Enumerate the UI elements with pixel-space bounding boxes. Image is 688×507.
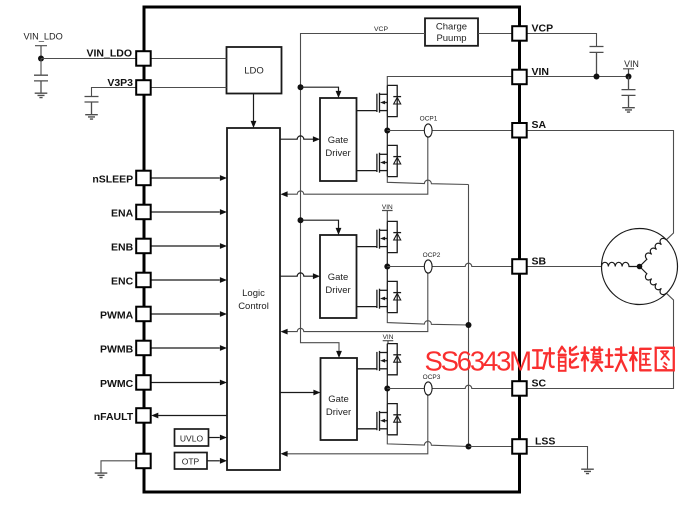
svg-text:SA: SA [532, 119, 547, 131]
capacitor C1 [34, 75, 48, 93]
wire SB to pin [387, 263, 513, 266]
wire GND pin to ground [101, 461, 137, 473]
pin ENA [111, 205, 151, 220]
supply VIN right [623, 59, 639, 77]
wire LSS node to pin [469, 446, 514, 448]
Gate Driver block U4 [320, 98, 357, 181]
pin SA [512, 119, 546, 138]
pin PWMA [100, 307, 151, 322]
svg-text:VIN: VIN [532, 66, 550, 78]
svg-text:VIN_LDO: VIN_LDO [86, 48, 132, 60]
pin PWMC [100, 375, 151, 390]
svg-text:OCP1: OCP1 [420, 115, 438, 122]
svg-text:ENC: ENC [111, 275, 134, 287]
svg-text:Driver: Driver [325, 148, 350, 159]
wire Q5 source to Q6 drain [386, 375, 388, 404]
svg-text:Gate: Gate [328, 394, 349, 405]
wire SB to motor [527, 266, 602, 268]
wire LSS rail [468, 185, 470, 447]
IC boundary [144, 7, 520, 492]
Logic Control block U1 [227, 128, 280, 470]
svg-text:UVLO: UVLO [180, 434, 204, 444]
svg-text:Gate: Gate [328, 272, 349, 283]
transistor Q3 [357, 221, 402, 252]
wire PWMA to Logic [151, 311, 227, 317]
wire OCP2 sense return [281, 273, 428, 335]
wire LDO to Logic Control [251, 94, 257, 129]
wire SC to pin [387, 385, 513, 388]
wire UVLO to Logic [209, 435, 228, 441]
svg-text:VIN: VIN [383, 334, 394, 341]
wire nSLEEP to Logic [151, 175, 227, 181]
wire LSS pin to ground [527, 447, 588, 470]
wire Logic to Gate Driver U5 [280, 273, 320, 279]
svg-text:SC: SC [532, 378, 547, 390]
node SA [384, 128, 390, 134]
svg-text:Charge: Charge [436, 22, 467, 33]
wire VCP to Gate Driver U4 [301, 87, 342, 98]
wire PWMC to Logic [151, 380, 227, 386]
LDO block U2 [227, 47, 282, 94]
wire OTP to Logic [207, 458, 227, 464]
pin ENC [111, 273, 151, 288]
svg-text:nSLEEP: nSLEEP [92, 173, 133, 185]
pin SB [512, 255, 546, 273]
pin nFAULT [94, 408, 151, 423]
svg-text:OCP2: OCP2 [423, 252, 441, 259]
svg-text:VCP: VCP [374, 26, 388, 33]
title hanzi gong [533, 348, 554, 369]
pin V3P3 [107, 77, 150, 95]
svg-text:PWMB: PWMB [100, 343, 134, 355]
wire VIN pin to Q1 drain [387, 77, 513, 86]
Gate Driver block U6 [321, 358, 358, 440]
wire Logic to nFAULT [151, 413, 227, 419]
title hanzi neng [559, 347, 578, 371]
wire ENC to Logic [151, 277, 227, 283]
current sensor OCP3 [423, 374, 441, 395]
svg-text:V3P3: V3P3 [107, 77, 133, 89]
svg-text:Control: Control [238, 301, 269, 312]
wire V3P3 pin to LDO [150, 87, 227, 89]
wire Q3 source to Q4 drain [386, 253, 388, 282]
ground device [95, 473, 108, 477]
pin PWMB [100, 341, 151, 356]
transistor Q1 [357, 85, 402, 116]
wire V3P3 to C2 [92, 88, 138, 97]
supply VIN_LDO [24, 31, 63, 58]
node VCP branch 2 [298, 217, 304, 223]
wire ENB to Logic [151, 243, 227, 249]
transistor Q2 [357, 145, 402, 176]
capacitor C4 [622, 77, 636, 108]
title hanzi tu [656, 348, 674, 371]
pin VCP [512, 23, 553, 41]
pin LSS [512, 435, 555, 453]
title hanzi kuang [630, 347, 651, 371]
svg-text:PWMC: PWMC [100, 378, 134, 390]
wire Charge Pump to VCP pin [478, 33, 513, 35]
svg-text:nFAULT: nFAULT [94, 411, 134, 423]
node SB [384, 264, 390, 270]
svg-text:LDO: LDO [244, 66, 264, 77]
wire Q6 source to LSS node [387, 435, 468, 447]
pin VIN [512, 66, 549, 84]
node VIN C3 junction [594, 74, 600, 80]
svg-text:VCP: VCP [532, 23, 554, 35]
ground C2 [85, 115, 98, 119]
wire Q1 source to Q2 drain [386, 117, 388, 146]
title hanzi kuai [606, 347, 627, 371]
svg-text:Puump: Puump [436, 33, 466, 44]
node VIN supply junction [626, 74, 632, 80]
wire PWMB to Logic [151, 345, 227, 351]
wire VCP rail [301, 34, 426, 352]
transistor Q4 [357, 281, 402, 312]
svg-text:PWMA: PWMA [100, 309, 134, 321]
Charge Pump block U3 [425, 18, 478, 46]
wire SC to motor [527, 293, 674, 388]
ground C4 [622, 108, 635, 112]
wire VCP to Gate Driver U5 [301, 220, 342, 235]
wire SA to pin [387, 130, 513, 132]
svg-text:SB: SB [532, 255, 547, 267]
wire VIN pin to supply [527, 76, 629, 78]
OTP block U8 [175, 453, 208, 470]
svg-text:SS6343M: SS6343M [425, 346, 531, 377]
pin ENB [111, 239, 151, 254]
node LSS rail stage2 [466, 322, 472, 328]
transistor Q6 [357, 404, 402, 435]
svg-text:Driver: Driver [325, 285, 350, 296]
wire VIN_LDO to C1 [40, 59, 42, 76]
pin GND [136, 454, 151, 469]
wire Q2 source to LSS rail [387, 177, 468, 185]
wire Q4 source to LSS rail [387, 313, 468, 325]
svg-text:Logic: Logic [242, 288, 265, 299]
svg-text:Driver: Driver [326, 407, 351, 418]
ground C1 [35, 93, 48, 97]
motor M1 [602, 229, 678, 305]
capacitor C2 [85, 97, 99, 115]
node VCP branch 1 [298, 84, 304, 90]
svg-text:LSS: LSS [535, 435, 555, 447]
node VIN_LDO junction [38, 56, 44, 62]
supply VIN stage3 [383, 334, 394, 344]
wire Logic to Gate Driver U4 [280, 136, 320, 142]
ground LSS [581, 469, 594, 473]
wire VIN_LDO to pin [41, 58, 137, 60]
capacitor C3 [590, 47, 604, 77]
Gate Driver block U5 [320, 235, 357, 318]
svg-text:VIN: VIN [382, 204, 393, 211]
wire OCP1 sense return [281, 137, 428, 197]
svg-text:VIN_LDO: VIN_LDO [24, 31, 63, 41]
pin VIN_LDO [86, 48, 150, 66]
svg-text:ENB: ENB [111, 241, 134, 253]
wire VCP arrow to Gate Driver U6 [336, 351, 342, 358]
wire Logic to Gate Driver U6 [280, 390, 321, 396]
svg-text:ENA: ENA [111, 207, 134, 219]
node LSS [466, 444, 472, 450]
pin nSLEEP [92, 171, 150, 186]
svg-text:OTP: OTP [182, 457, 200, 467]
svg-text:Gate: Gate [328, 135, 349, 146]
svg-text:VIN: VIN [624, 59, 639, 69]
wire SA to motor [527, 131, 674, 240]
wire ENA to Logic [151, 209, 227, 215]
wire OCP3 sense return [281, 395, 428, 456]
current sensor OCP2 [423, 252, 441, 273]
transistor Q5 [357, 344, 402, 375]
node SC [384, 386, 390, 392]
wire VCP pin to C3 [527, 34, 597, 47]
wire VIN_LDO pin to LDO [150, 58, 227, 60]
pin SC [512, 378, 546, 396]
title hanzi mo [581, 347, 602, 371]
current sensor OCP1 [420, 115, 438, 137]
supply VIN stage2 [382, 204, 393, 222]
UVLO block U7 [175, 429, 209, 446]
